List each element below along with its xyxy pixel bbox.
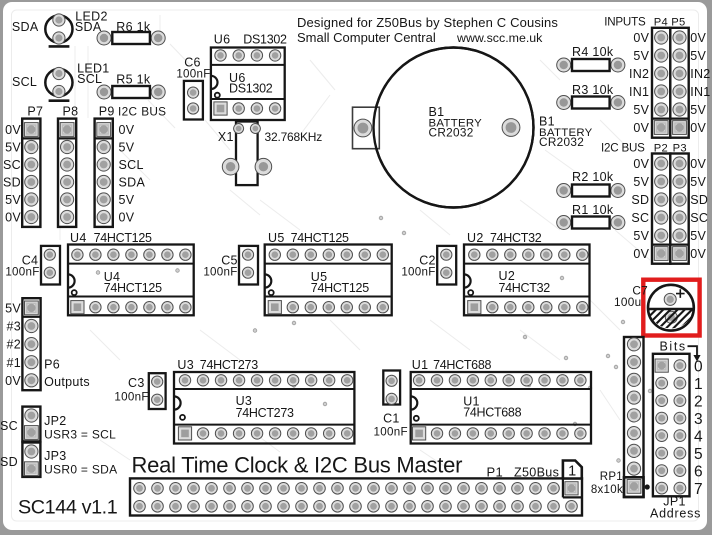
connectors P4 P5 (INPUTS) [604,15,689,137]
svg-text:0V: 0V [119,211,135,225]
svg-text:Z50Bus: Z50Bus [514,466,559,480]
svg-text:Designed for Z50Bus by Stephen: Designed for Z50Bus by Stephen C Cousins [297,15,558,30]
svg-text:SC: SC [0,419,18,433]
capacitor C4 100nF [5,246,60,285]
svg-text:#2: #2 [6,338,21,352]
svg-text:100u: 100u [614,295,641,309]
resistor R2 10k [557,170,625,198]
capacitor C5 100nF [203,246,258,285]
svg-text:Real Time Clock & I2C Bus Mast: Real Time Clock & I2C Bus Master [132,453,463,478]
svg-text:5: 5 [694,446,703,463]
svg-text:74HCT32: 74HCT32 [490,231,542,245]
resistor R4 10k [557,45,625,72]
svg-text:0V: 0V [119,123,135,137]
resistor R1 10k [557,203,625,230]
svg-text:8x10k: 8x10k [591,484,623,496]
IC U1 74HCT688 (DIP-20) [411,358,591,443]
svg-text:P5: P5 [671,16,685,28]
svg-text:IN2: IN2 [690,67,710,81]
svg-text:U5: U5 [268,231,285,245]
svg-text:74HCT688: 74HCT688 [463,406,521,420]
svg-text:1: 1 [568,464,576,480]
svg-text:100nF: 100nF [203,266,237,279]
svg-text:SCL: SCL [119,158,144,172]
LED D2 (LED2 SDA) [12,9,108,46]
svg-text:74HCT273: 74HCT273 [236,406,294,420]
svg-text:USR3 = SCL: USR3 = SCL [44,428,116,442]
svg-text:JP3: JP3 [44,449,66,463]
LED D1 (LED1 SCL) [12,62,110,101]
pin 1 tag of P1 [563,461,582,479]
svg-text:U6: U6 [214,32,231,46]
svg-text:0V: 0V [5,374,21,388]
svg-text:Small Computer Central: Small Computer Central [297,30,436,45]
battery B1 CR2032 holder [353,48,593,208]
svg-text:P9: P9 [99,105,115,119]
svg-text:5V: 5V [690,229,706,243]
svg-text:BUS: BUS [141,105,166,119]
svg-text:100nF: 100nF [5,266,39,279]
svg-text:0V: 0V [5,211,21,225]
svg-text:SC: SC [690,211,708,225]
red highlight box around C7 [643,280,699,336]
svg-text:7: 7 [694,481,703,498]
svg-text:SDA: SDA [119,176,146,190]
svg-text:USR0 = SDA: USR0 = SDA [44,463,117,477]
svg-text:3: 3 [694,411,703,428]
svg-text:R1 10k: R1 10k [572,203,614,217]
jumper JP2 (USR3 = SCL) [0,407,116,442]
svg-text:4: 4 [694,429,703,446]
svg-text:100nF: 100nF [114,391,148,404]
resistor R3 10k [557,83,625,110]
capacitor C3 100nF [114,373,165,409]
svg-text:SD: SD [3,176,21,190]
IC U3 74HCT273 (DIP-20) [174,358,354,443]
svg-text:CR2032: CR2032 [539,135,584,149]
svg-text:U4: U4 [70,231,87,245]
connectors P2 P3 (I2C BUS) [601,141,689,263]
svg-text:0V: 0V [690,247,706,261]
svg-text:SC144 v1.1: SC144 v1.1 [18,497,118,519]
svg-text:R2 10k: R2 10k [572,170,614,184]
svg-text:0V: 0V [633,31,649,45]
svg-text:C1: C1 [383,412,400,426]
svg-text:5V: 5V [633,229,649,243]
svg-text:100nF: 100nF [374,425,408,438]
svg-text:5V: 5V [690,103,706,117]
svg-text:P6: P6 [44,357,60,371]
svg-text:SD: SD [631,193,649,207]
svg-text:X1: X1 [218,130,234,144]
svg-text:5V: 5V [633,103,649,117]
svg-text:R4 10k: R4 10k [572,45,614,59]
svg-text:#3: #3 [6,320,21,334]
svg-text:SCL: SCL [12,75,37,89]
svg-text:74HCT125: 74HCT125 [291,231,349,245]
svg-text:P8: P8 [62,105,78,119]
IC U5 74HCT125 (DIP-14) [265,231,392,315]
IC U4 74HCT125 (DIP-14) [68,231,194,315]
svg-text:P3: P3 [673,142,687,154]
resistor R5 1k [97,72,165,99]
svg-text:IN1: IN1 [629,85,649,99]
svg-text:P4: P4 [654,16,668,28]
svg-text:IN1: IN1 [690,85,710,99]
capacitor C2 100nF [401,246,456,285]
svg-text:R5 1k: R5 1k [116,72,151,86]
capacitor C1 100nF [374,371,408,439]
svg-text:100nF: 100nF [176,68,210,81]
capacitor C6 100nF [176,56,210,120]
svg-text:SCL: SCL [77,72,102,86]
svg-text:RP1: RP1 [600,471,623,483]
connector P6 (Outputs) [22,298,40,390]
capacitor C7 100uF (electrolytic, red highlight) [626,285,712,332]
svg-text:U1: U1 [412,358,429,372]
svg-text:5V: 5V [633,49,649,63]
svg-text:0V: 0V [633,121,649,135]
svg-text:www.scc.me.uk: www.scc.me.uk [456,31,543,45]
svg-text:SC: SC [3,158,21,172]
svg-text:U3: U3 [177,358,194,372]
svg-text:SDA: SDA [75,20,102,34]
svg-text:Outputs: Outputs [44,375,90,389]
svg-text:5V: 5V [690,49,706,63]
svg-text:IN2: IN2 [629,67,649,81]
svg-text:I2C: I2C [118,105,137,119]
svg-text:Address: Address [650,507,701,521]
svg-text:0: 0 [694,359,703,376]
jumper JP3 (USR0 = SDA) [0,443,117,477]
svg-text:I2C BUS: I2C BUS [601,141,645,154]
svg-text:32.768KHz: 32.768KHz [265,130,323,144]
svg-text:P1: P1 [487,465,504,480]
svg-text:SDA: SDA [12,20,39,34]
svg-text:5V: 5V [633,175,649,189]
svg-text:P7: P7 [27,105,43,119]
svg-text:6: 6 [694,464,703,481]
IC U2 74HCT32 (DIP-14) [464,231,590,315]
crystal X1 32.768KHz [218,122,322,186]
svg-text:0V: 0V [5,123,21,137]
svg-text:C3: C3 [128,376,145,390]
svg-text:74HCT125: 74HCT125 [104,281,162,295]
svg-text:U2: U2 [467,231,484,245]
svg-text:#1: #1 [6,356,21,370]
svg-text:0V: 0V [633,247,649,261]
svg-text:2: 2 [694,394,703,411]
svg-text:DS1302: DS1302 [229,82,273,96]
connector P1 (Z50Bus) [130,465,582,516]
svg-text:1: 1 [694,376,703,393]
svg-text:CR2032: CR2032 [429,126,474,140]
svg-text:Bits: Bits [660,340,687,354]
svg-text:74HCT273: 74HCT273 [200,358,258,372]
svg-text:INPUTS: INPUTS [604,15,646,28]
svg-text:5V: 5V [5,141,21,155]
svg-text:JP2: JP2 [44,414,66,428]
svg-text:5V: 5V [119,193,135,207]
jumper block JP1 (Address) [653,354,690,497]
svg-text:100nF: 100nF [401,266,435,279]
svg-text:5V: 5V [690,175,706,189]
resistor network RP1 8x10k [591,337,650,497]
connector P7 [22,105,43,227]
svg-text:0V: 0V [690,121,706,135]
svg-text:SD: SD [690,193,708,207]
svg-text:5V: 5V [5,193,21,207]
svg-text:74HCT32: 74HCT32 [499,281,551,295]
svg-text:R6 1k: R6 1k [116,20,151,34]
svg-text:0V: 0V [690,31,706,45]
svg-text:P2: P2 [654,142,668,154]
resistor R6 1k [97,20,165,45]
svg-text:DS1302: DS1302 [243,32,287,46]
connector P9 [95,105,115,227]
svg-text:74HCT688: 74HCT688 [433,358,491,372]
svg-text:SC: SC [631,211,649,225]
svg-text:0V: 0V [690,157,706,171]
svg-text:74HCT125: 74HCT125 [311,281,369,295]
svg-text:R3 10k: R3 10k [572,83,614,97]
connector P8 [58,105,78,227]
IC U6 DS1302 (DIP-8) [211,32,287,120]
svg-text:5V: 5V [5,302,21,316]
svg-text:SD: SD [0,455,18,469]
svg-text:74HCT125: 74HCT125 [94,231,152,245]
svg-text:0V: 0V [633,157,649,171]
svg-text:5V: 5V [119,141,135,155]
